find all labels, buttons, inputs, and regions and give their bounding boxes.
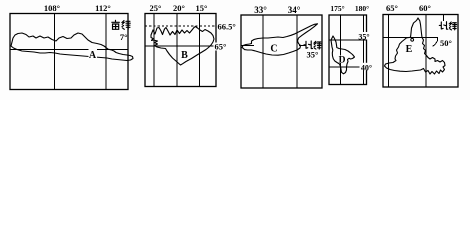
meridian 60 <box>425 15 427 88</box>
parallel 40S <box>329 66 367 68</box>
label 65 <box>214 43 219 51</box>
meridian 20 <box>176 14 178 87</box>
tick above beiwei <box>443 15 445 21</box>
svg-text:A: A <box>89 50 97 61</box>
svg-text:34°: 34° <box>288 5 301 15</box>
svg-text:65°: 65° <box>386 3 398 13</box>
meridian 180 <box>363 15 365 85</box>
svg-text:B: B <box>181 50 188 61</box>
label nanwei (south latitude) char nan <box>112 20 120 29</box>
parallel 35S <box>329 39 367 41</box>
label beiwei E char wei <box>449 22 456 30</box>
isle of man loop <box>411 38 414 41</box>
island A outline <box>11 33 133 61</box>
label nanwei char wei <box>122 21 130 30</box>
svg-text:33°: 33° <box>254 5 267 15</box>
meridian 34 <box>296 15 298 88</box>
svg-text:20°: 20° <box>173 3 185 13</box>
panel D frame <box>329 15 367 85</box>
meridian 25 <box>153 14 155 87</box>
svg-text:25°: 25° <box>150 3 162 13</box>
svg-text:112°: 112° <box>95 3 111 13</box>
meridian 108 <box>54 14 56 90</box>
parallel 35N west segment <box>241 45 254 47</box>
arctic circle dashed 66.5 <box>145 25 216 27</box>
label D <box>339 56 346 64</box>
label 35S on grid <box>358 32 371 40</box>
meridian 33 <box>262 15 264 88</box>
svg-text:C: C <box>270 44 277 55</box>
svg-text:65°: 65° <box>215 42 227 52</box>
label beiwei (north latitude) char bei <box>304 41 313 49</box>
svg-text:108°: 108° <box>44 3 60 13</box>
svg-text:E: E <box>406 44 413 55</box>
island D outline <box>331 36 355 74</box>
label 35N <box>306 50 321 59</box>
panel E frame <box>383 15 458 88</box>
panel C frame <box>241 15 322 88</box>
svg-text:7°: 7° <box>120 32 128 42</box>
svg-text:50°: 50° <box>440 38 452 48</box>
svg-text:66.5°: 66.5° <box>218 22 236 32</box>
panel A frame <box>10 14 128 90</box>
svg-text:60°: 60° <box>419 3 431 13</box>
svg-text:35°: 35° <box>358 33 369 42</box>
meridian 15 <box>199 14 201 87</box>
island B outline <box>151 27 214 66</box>
parallel 7S <box>10 49 128 51</box>
svg-text:180°: 180° <box>355 4 369 13</box>
label 40S on grid <box>360 63 373 71</box>
parallel 65 <box>145 45 216 47</box>
svg-text:35°: 35° <box>307 50 319 60</box>
parallel 50N thick <box>383 38 438 47</box>
svg-text:40°: 40° <box>361 64 372 73</box>
parallel 35N east segment <box>299 45 306 47</box>
island E outline <box>385 18 446 74</box>
island C outline <box>242 24 318 55</box>
panel B frame <box>145 14 216 87</box>
meridian 175 <box>340 15 342 85</box>
svg-text:15°: 15° <box>196 3 208 13</box>
meridian 112 <box>105 14 107 90</box>
label beiwei E char bei <box>439 22 448 30</box>
svg-text:D: D <box>339 56 346 66</box>
label A <box>89 49 98 59</box>
meridian 65 <box>388 15 390 88</box>
label 50N <box>440 39 453 47</box>
label beiwei char wei <box>314 41 321 49</box>
svg-text:175°: 175° <box>330 4 344 13</box>
